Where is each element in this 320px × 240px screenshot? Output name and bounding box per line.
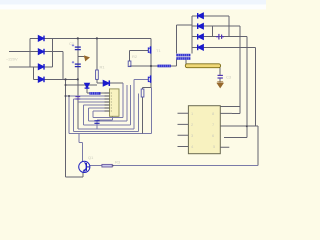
wire nest h5: [74, 94, 139, 132]
capacitor C2: [75, 64, 81, 67]
IC U2: [105, 89, 120, 116]
svg-text:C3: C3: [226, 75, 232, 80]
wire collector riser: [79, 134, 83, 162]
svg-text:R1: R1: [100, 65, 106, 70]
wire U2 pin3 loop: [74, 99, 110, 131]
svg-text:~220V: ~220V: [6, 57, 18, 62]
wire IC U3 pin3 right: [224, 136, 247, 138]
wire above IC U3: [220, 105, 240, 107]
diode D5: [103, 80, 109, 86]
wire nest h1: [93, 83, 123, 117]
wire outer loop left vertical: [68, 96, 70, 134]
wire buck node to L2: [130, 65, 158, 67]
resistor R2: [128, 61, 131, 67]
capacitor C5: [75, 97, 80, 99]
wire secondary right drop: [185, 59, 187, 64]
wire U2 pin4: [78, 101, 110, 103]
wire bridge right rail C: [51, 38, 53, 66]
wire rect D4' row: [192, 47, 256, 126]
svg-text:T1: T1: [156, 48, 161, 53]
ground arrow G1: [83, 55, 90, 61]
background sheet: [0, 0, 266, 194]
diode D4': [198, 45, 204, 51]
diode D6 vertical: [85, 83, 90, 88]
diode D2': [198, 23, 204, 29]
resistor R1: [96, 70, 99, 79]
wire rect D3' row: [192, 37, 247, 138]
capacitor C6: [218, 75, 223, 78]
wire rect D1' row: [192, 16, 229, 37]
wire R2 riser and gate1: [130, 50, 149, 61]
top window band: [0, 0, 266, 5]
wire diode D4 row: [34, 78, 78, 80]
wire diode D2 row: [30, 51, 63, 53]
wire transformer primary left riser: [176, 25, 192, 53]
wire R5 drop: [142, 88, 144, 134]
plus marks: [72, 44, 74, 63]
resistor R3 base: [102, 164, 112, 167]
wire transformer right rail: [191, 16, 193, 54]
wire snubber cap drop and ground: [219, 68, 221, 83]
wire bridge left rail: [29, 38, 31, 66]
wire U2 pin2: [66, 95, 110, 97]
diode D1: [38, 36, 44, 42]
transformer T1: [176, 54, 190, 60]
wire nest h4: [78, 79, 148, 129]
wire R1 top: [96, 38, 98, 70]
resistor R5: [141, 89, 144, 97]
wire U2 pin5 loop: [84, 105, 110, 125]
wire bridge left rail B: [33, 67, 35, 80]
mosfet M2: [148, 75, 150, 82]
wire IC U3 pin2 right and far right drop: [220, 126, 257, 165]
wire ground branch: [78, 56, 84, 58]
wire U2 bottom pin to C7: [97, 116, 113, 129]
wire bottom return: [90, 165, 258, 167]
transistor Q1: [79, 161, 90, 172]
wire IC U3 pin1 right: [232, 112, 240, 114]
wire rect D2' row to IC pin1: [192, 26, 240, 113]
wire nest h2: [88, 85, 127, 121]
wire R1 bottom to diode D5: [97, 79, 123, 83]
diode D2: [38, 49, 44, 55]
wire cap C4 bridge: [212, 26, 214, 37]
svg-text:C1: C1: [69, 41, 75, 46]
diode D1': [198, 13, 204, 19]
wire nest h6 outer: [69, 88, 151, 134]
wire bridge right rail D: [62, 52, 64, 80]
wire L1 row to U2 pin1: [87, 92, 110, 94]
diode D4: [38, 77, 44, 83]
wire switch chain vertical: [143, 38, 152, 87]
svg-text:R3: R3: [115, 160, 121, 165]
wire L2 to transformer: [171, 59, 176, 66]
wire U2 pin7 loop: [93, 111, 110, 118]
wire U2 pin6 loop: [88, 108, 109, 121]
wire nest h3: [84, 85, 131, 125]
wire aux rail: [66, 84, 97, 86]
wire filter cap chain vertical: [77, 38, 79, 129]
capacitor C4: [216, 34, 224, 40]
svg-text:Q1: Q1: [88, 155, 94, 160]
capacitor C7: [94, 121, 99, 124]
wire zener branch: [86, 85, 88, 93]
wire main left vertical: [65, 79, 67, 176]
mosfet M1: [148, 46, 150, 53]
inductor L1: [89, 92, 100, 95]
diode D3: [38, 64, 44, 70]
wire top DC rail: [30, 37, 151, 39]
svg-text:R2: R2: [132, 54, 138, 59]
wire emitter return: [66, 172, 83, 177]
ground arrow G2: [216, 81, 224, 88]
diode D3': [198, 34, 204, 40]
IC U3: [178, 106, 233, 154]
capacitor C1: [75, 47, 81, 50]
wire AC input N (bottom): [9, 66, 52, 68]
fuse bar F1: [185, 64, 220, 68]
inductor L2: [158, 65, 171, 68]
wire AC input L (top): [9, 51, 30, 53]
